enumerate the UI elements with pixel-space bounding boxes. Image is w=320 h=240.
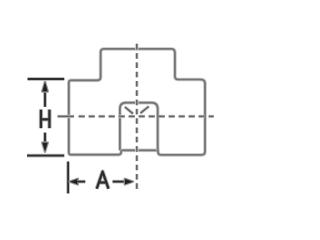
horizontal centerline bbox=[79, 115, 214, 117]
H dimension down arrow bbox=[42, 143, 48, 152]
A dimension right line halo bbox=[113, 180, 126, 184]
horizontal centerline long dash bbox=[58, 115, 75, 117]
H dimension lower line bbox=[44, 133, 46, 144]
vertical centerline halo bbox=[135, 44, 138, 192]
socket diagonal right bbox=[140, 106, 148, 113]
socket diagonal left halo bbox=[125, 107, 133, 114]
H dimension lower line halo bbox=[43, 133, 47, 144]
A dimension left extension line halo bbox=[66, 162, 70, 194]
A dimension right line bbox=[113, 181, 126, 183]
A dimension left line halo bbox=[77, 180, 85, 184]
H dimension up arrow bbox=[42, 82, 48, 92]
A dimension left arrow halo bbox=[70, 179, 78, 185]
A dimension right arrow bbox=[125, 179, 133, 185]
A dimension right arrow halo bbox=[125, 179, 133, 185]
H dimension upper line bbox=[44, 91, 46, 107]
H dimension bottom tick halo bbox=[27, 154, 64, 158]
H dimension top tick bbox=[28, 78, 65, 80]
socket diagonal left bbox=[125, 107, 133, 114]
A label halo bbox=[97, 172, 109, 189]
H dimension top tick halo bbox=[28, 77, 65, 81]
A dimension left extension line bbox=[67, 162, 69, 194]
H dimension down arrow halo bbox=[42, 143, 48, 152]
socket dome halo bbox=[120, 103, 158, 151]
tee fitting body outline halo bbox=[69, 49, 205, 155]
socket dome bbox=[120, 103, 158, 151]
tee fitting body outline bbox=[69, 49, 205, 155]
vertical centerline bbox=[136, 44, 138, 192]
A dimension left arrow bbox=[70, 179, 78, 185]
H label bbox=[41, 110, 50, 129]
H dimension up arrow halo bbox=[42, 82, 48, 92]
socket diagonal right halo bbox=[140, 106, 148, 113]
H dimension bottom tick bbox=[27, 155, 64, 157]
horizontal centerline halo bbox=[79, 115, 214, 118]
A label bbox=[97, 172, 109, 189]
horizontal centerline long dash halo bbox=[58, 115, 75, 118]
A dimension left line bbox=[77, 181, 85, 183]
H dimension upper line halo bbox=[43, 91, 47, 107]
H label halo bbox=[41, 110, 50, 129]
